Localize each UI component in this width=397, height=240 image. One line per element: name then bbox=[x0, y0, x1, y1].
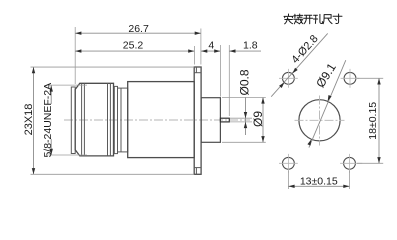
pin extension lines horizontal bbox=[230, 117, 252, 119]
dim 13 line bbox=[288, 185, 349, 187]
dim 23X18 line bbox=[33, 67, 35, 174]
dim O9 extension lines bbox=[222, 97, 266, 99]
svg-text:18±0.15: 18±0.15 bbox=[367, 102, 379, 140]
neck inner line bbox=[120, 88, 122, 152]
centerline horizontal big circle bbox=[295, 119, 345, 121]
dim O0.8 arrows bbox=[244, 112, 247, 118]
leader O9.1 line bbox=[309, 60, 346, 147]
dim 4 line bbox=[201, 50, 220, 52]
leader 4-O2.8 arrows bbox=[279, 82, 284, 88]
hole bottom-left crosshair bbox=[279, 162, 298, 164]
dim 25.2 line bbox=[75, 50, 194, 52]
thread dim arrows bbox=[50, 85, 53, 91]
washer bbox=[114, 86, 117, 153]
dim 26.7 extension left bbox=[74, 27, 76, 84]
dim 25.2 extension right bbox=[193, 46, 195, 65]
hole top-right bbox=[344, 72, 356, 84]
connector body bbox=[128, 82, 195, 158]
center pin bbox=[220, 118, 229, 122]
leader O9.1 arrows bbox=[307, 139, 311, 145]
svg-text:4-Ø2.8: 4-Ø2.8 bbox=[289, 33, 320, 66]
svg-text:26.7: 26.7 bbox=[128, 23, 149, 35]
dim 18 arrows bbox=[377, 78, 380, 84]
dim 26.7 arrows bbox=[75, 32, 81, 35]
centerline left view bbox=[64, 119, 250, 121]
dim 25.2 arrows bbox=[75, 49, 81, 52]
svg-text:1.8: 1.8 bbox=[243, 40, 258, 52]
neck bbox=[118, 88, 128, 152]
centerline vertical big circle bbox=[319, 96, 321, 146]
dim 26.7 line bbox=[75, 32, 201, 34]
front gasket rim bbox=[71, 87, 75, 154]
dim 1.8 arrow bbox=[229, 49, 235, 52]
hole top-left bbox=[283, 72, 295, 84]
flange corner inner verticals bbox=[195, 67, 197, 73]
char chi bbox=[323, 15, 332, 24]
thread dim line stubs bbox=[50, 85, 52, 104]
flange bbox=[194, 67, 201, 174]
insulator bushing bbox=[201, 98, 220, 143]
svg-text:Ø0.8: Ø0.8 bbox=[237, 69, 251, 95]
svg-text:4: 4 bbox=[208, 40, 214, 52]
dim 1.8 extension lines bbox=[219, 45, 221, 97]
nut front ring lines bbox=[81, 84, 83, 156]
hole top-right crosshair bbox=[341, 77, 360, 79]
dim 18 line bbox=[378, 78, 380, 163]
char kong bbox=[313, 14, 322, 23]
flange step line bottom bbox=[194, 167, 201, 169]
svg-text:25.2: 25.2 bbox=[123, 39, 144, 51]
dim O9 arrows bbox=[261, 97, 264, 103]
dim 13 extension lines bbox=[287, 171, 289, 190]
svg-text:23X18: 23X18 bbox=[23, 104, 35, 136]
char an bbox=[284, 14, 293, 24]
flange step line top bbox=[194, 72, 201, 74]
dim 4 arrows bbox=[201, 49, 207, 52]
dim 13 arrows bbox=[288, 185, 294, 188]
coupling nut outline bbox=[75, 83, 113, 156]
mounting hole circle big bbox=[299, 100, 340, 141]
leader 4-O2.8 line bbox=[271, 33, 328, 96]
char cun bbox=[333, 14, 342, 23]
dim O0.8 line bbox=[245, 97, 247, 135]
svg-text:5/8-24UNEF-2A: 5/8-24UNEF-2A bbox=[42, 83, 54, 158]
char zhuang bbox=[294, 14, 303, 24]
hole top-left crosshair bbox=[279, 77, 298, 79]
thread dim extension lines bbox=[49, 84, 88, 86]
dim 1.8 line bbox=[229, 50, 261, 52]
dim 23X18 extension top bbox=[31, 66, 195, 68]
dim 26.7 extension right bbox=[200, 29, 202, 65]
hole bottom-right crosshair bbox=[340, 162, 362, 164]
dim 23X18 extension bottom bbox=[31, 173, 195, 175]
svg-text:13±0.15: 13±0.15 bbox=[300, 175, 338, 187]
hole bottom-left bbox=[283, 157, 295, 169]
svg-text:Ø9: Ø9 bbox=[251, 111, 265, 127]
dim O9 line bbox=[262, 97, 264, 142]
nut rear ring lines bbox=[107, 83, 109, 156]
char kai bbox=[304, 15, 313, 24]
dim 23X18 arrows bbox=[32, 67, 35, 73]
title mounting hole dims bbox=[284, 14, 342, 24]
dim 18 extension lines bbox=[357, 77, 383, 79]
hole bottom-right bbox=[344, 157, 356, 169]
